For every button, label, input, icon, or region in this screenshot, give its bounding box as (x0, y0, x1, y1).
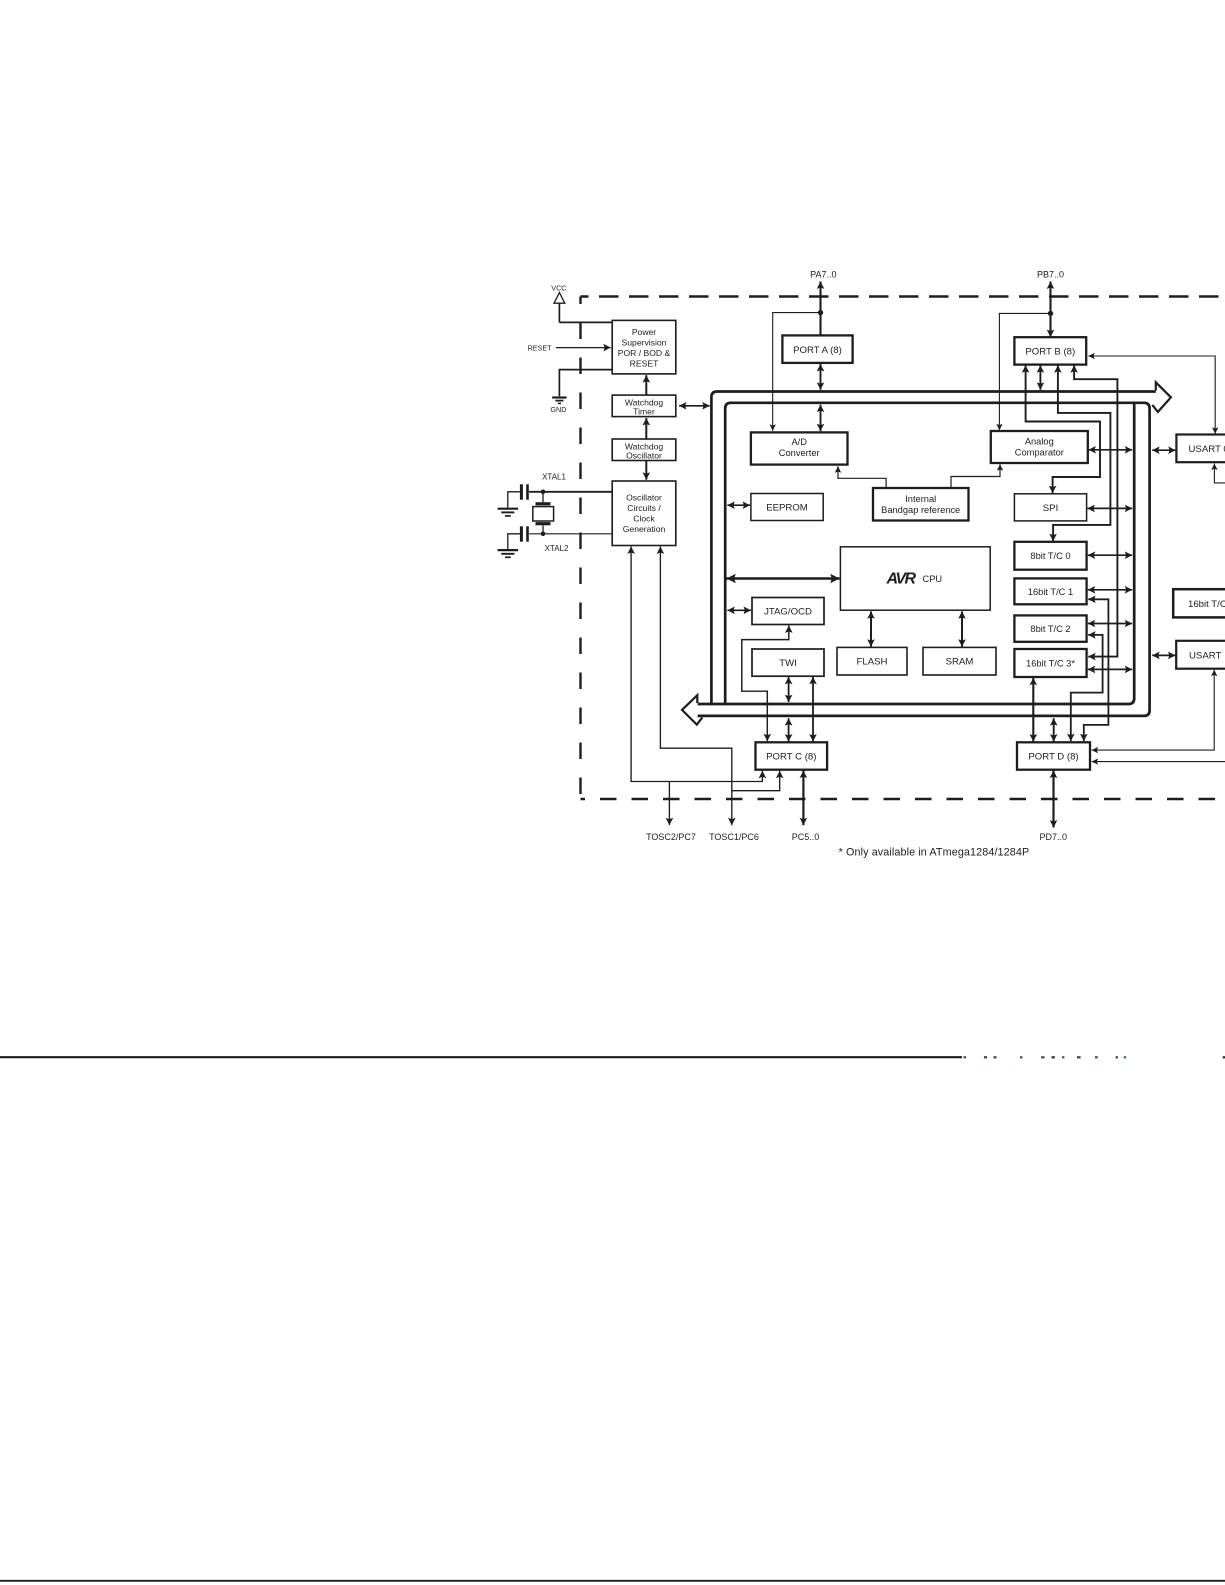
footer tiny text remnants (964, 1056, 1225, 1058)
wire bidir TWI to PORT C (long) (812, 677, 814, 742)
wire TOSC2/PC7 external arrow (668, 782, 670, 826)
wire bidir 8bit T/C 0 to bus corridor (1088, 554, 1132, 556)
block SRAM (923, 647, 996, 675)
wire 8bit T/C 2 to PORT D (stair) (1071, 635, 1103, 741)
wire bidir CPU to FLASH (870, 611, 872, 646)
VCC symbol (hollow up arrow) (554, 293, 565, 323)
svg-text:FLASH: FLASH (857, 657, 888, 668)
block Internal Bandgap reference (873, 488, 969, 521)
wire bidir PORT A to data bus (820, 364, 822, 390)
wire bidir 8bit T/C 2 to bus corridor (1088, 623, 1132, 625)
svg-text:8bit T/C 0: 8bit T/C 0 (1030, 551, 1070, 561)
block EEPROM (751, 494, 823, 521)
wire USART 1 to PORT D (stair) (1092, 670, 1215, 750)
bottom page rule (0, 1580, 1225, 1582)
node junction on PA line (818, 310, 823, 315)
wire PORT D right side (clipped) (1092, 761, 1225, 763)
ground symbol (GND) (552, 398, 566, 404)
wire bidir TWI to data bus (788, 677, 790, 702)
svg-text:AVR: AVR (886, 571, 917, 588)
svg-text:A/D: A/D (791, 437, 807, 447)
wire bidir 16bit T/C 3 to PORT D (1032, 678, 1034, 742)
ground symbol below C1 (498, 509, 518, 516)
svg-text:Converter: Converter (779, 448, 820, 458)
wire bidir Watchdog Timer to data bus (679, 405, 710, 407)
data bus: outer top line and outer left vertical (711, 392, 1155, 706)
crystal X1 (533, 492, 554, 534)
wire VCC to Power Supervision (559, 321, 612, 323)
wire PA7..0 external bidir arrow (819, 282, 821, 337)
svg-text:PB7..0: PB7..0 (1037, 270, 1064, 280)
svg-text:SPI: SPI (1043, 503, 1058, 514)
svg-text:PA7..0: PA7..0 (810, 270, 836, 280)
svg-text:TWI: TWI (779, 658, 797, 669)
wire bidir data bus to EEPROM (727, 504, 750, 506)
svg-text:PC5..0: PC5..0 (792, 832, 820, 842)
svg-text:Comparator: Comparator (1015, 448, 1064, 458)
wire PORT B to SPI (stair) (1026, 365, 1100, 493)
data bus: right big open arrow (1152, 382, 1171, 412)
footer horizontal rule (0, 1056, 962, 1058)
wire RESET arrow into Power Supervision (556, 347, 611, 349)
wire bidir SPI to bus corridor (1087, 507, 1132, 509)
block SPI (1014, 494, 1086, 521)
wire JTAG/OCD to PORT C (stair) (742, 626, 789, 742)
svg-text:CPU: CPU (923, 574, 943, 584)
wire PORT B right side to USART 0 (1088, 356, 1215, 434)
svg-text:* Only available in ATmega1284: * Only available in ATmega1284/1284P (839, 847, 1030, 859)
wire arrow Watchdog Oscillator to Watchdog Timer (645, 418, 647, 439)
svg-text:POR / BOD &: POR / BOD & (618, 348, 671, 358)
wire PORT B to 8bit T/C 0 (stair) (1053, 365, 1110, 541)
svg-text:RESET: RESET (630, 358, 659, 368)
block AVR CPU (840, 547, 990, 610)
wire bidir CPU to SRAM (961, 611, 963, 646)
svg-text:EEPROM: EEPROM (766, 503, 808, 514)
wire arrow Watchdog Timer to Power Supervision (645, 375, 647, 395)
svg-text:Circuits /: Circuits / (627, 503, 661, 513)
wire bidir USART 1 to bus corridor (1152, 654, 1175, 656)
wire Bandgap to Analog Comparator (951, 464, 1000, 488)
svg-text:Supervision: Supervision (622, 337, 667, 347)
data bus: upper bottom line and inner right vertical (698, 403, 1135, 704)
svg-text:PORT D (8): PORT D (8) (1028, 752, 1078, 763)
wire bidir 16bit T/C 1 to bus corridor (1088, 589, 1132, 591)
wire C1 to ground (508, 492, 520, 508)
wire PB7..0 external bidir arrow (1049, 282, 1051, 338)
node XTAL1 junction (541, 490, 546, 495)
block FLASH (837, 647, 907, 675)
wire bidir data bus to PORT C (788, 718, 790, 741)
wire bidir USART 0 to bus corridor (1152, 449, 1175, 451)
block PORT C (8) (756, 742, 828, 769)
capacitor C1 plates (521, 484, 527, 499)
block 16bit T/C right (clipped at page edge) (1173, 589, 1225, 617)
svg-text:Internal: Internal (905, 494, 936, 504)
wire TOSC1 branch to PORT C (732, 771, 780, 791)
wire PB junction to Analog Comparator (999, 313, 1050, 430)
wire bidir CPU to data bus (thick) (727, 577, 840, 580)
capacitor C2 plates (521, 526, 527, 541)
wire 16bit T/C 1 to PORT D (stair) (1084, 599, 1109, 741)
svg-text:16bit T/C 3*: 16bit T/C 3* (1026, 659, 1075, 669)
svg-text:SRAM: SRAM (946, 657, 974, 668)
svg-text:Generation: Generation (623, 524, 666, 534)
wire Power Supervision to GND (559, 370, 612, 397)
svg-text:PORT B (8): PORT B (8) (1025, 347, 1075, 358)
wire PA junction to A/D Converter (773, 313, 821, 431)
block 16bit T/C 3 (1014, 649, 1086, 677)
svg-text:PORT A (8): PORT A (8) (793, 345, 842, 356)
svg-text:Oscillator: Oscillator (626, 451, 662, 461)
dashed device boundary: top edge (581, 295, 1225, 297)
wire USART 0 bottom clock (clipped) (1214, 464, 1225, 483)
wire PORT B to 16bit T/C 3 (stair) (1074, 365, 1117, 656)
svg-text:8bit T/C 2: 8bit T/C 2 (1030, 624, 1070, 634)
svg-text:XTAL2: XTAL2 (545, 544, 569, 553)
svg-text:Analog: Analog (1025, 437, 1054, 447)
svg-text:16bit T/C: 16bit T/C (1188, 599, 1225, 610)
wire XTAL1 into Oscillator Circuits (529, 491, 612, 493)
svg-text:JTAG/OCD: JTAG/OCD (764, 607, 812, 618)
block USART 1 (clipped at page edge) (1176, 641, 1225, 669)
dashed device boundary: bottom edge (581, 798, 1225, 800)
ground symbol below C2 (498, 550, 518, 557)
svg-text:XTAL1: XTAL1 (542, 473, 566, 482)
svg-text:USART: USART (1189, 651, 1221, 662)
data bus: inner left vertical, inner top line, outer right vertical, lower bottom line (698, 403, 1150, 716)
svg-text:Bandgap reference: Bandgap reference (881, 505, 960, 515)
wire bidir data bus to PORT D (1053, 718, 1055, 741)
block 16bit T/C 1 (1014, 578, 1086, 604)
block PORT B (8) (1014, 337, 1086, 364)
data bus: left big open arrow (682, 695, 702, 724)
block Oscillator Circuits / Clock Generation (612, 481, 676, 546)
wire Oscillator Circuits to TOSC1 (660, 547, 731, 826)
svg-text:VCC: VCC (551, 284, 566, 293)
svg-text:Power: Power (632, 327, 656, 337)
wire arrow Watchdog Oscillator to Oscillator Circuits (645, 461, 647, 480)
svg-text:PORT C (8): PORT C (8) (766, 752, 816, 763)
node junction on PB line (1048, 311, 1053, 316)
wire C2 to ground (508, 534, 520, 549)
wire bidir data bus to A/D Converter (820, 405, 822, 432)
wire Bandgap to A/D Converter (838, 466, 886, 488)
block Analog Comparator (991, 431, 1088, 463)
svg-text:Timer: Timer (633, 407, 655, 417)
block Power Supervision POR/BOD RESET (612, 320, 676, 374)
wire Oscillator Circuits to PORT C / TOSC2 (631, 547, 762, 782)
block TWI (752, 649, 824, 676)
svg-text:TOSC2/PC7: TOSC2/PC7 (646, 832, 696, 842)
dashed device boundary: left edge (579, 297, 581, 801)
block A/D Converter (751, 432, 848, 464)
block USART 0 (clipped at page edge) (1176, 435, 1225, 463)
svg-text:Oscillator: Oscillator (626, 492, 662, 502)
svg-text:USART 0: USART 0 (1189, 444, 1225, 455)
svg-text:PD7..0: PD7..0 (1039, 832, 1067, 842)
block PORT D (8) (1017, 742, 1090, 769)
block 8bit T/C 0 (1014, 542, 1086, 570)
node XTAL2 junction (541, 532, 546, 537)
svg-text:TOSC1/PC6: TOSC1/PC6 (709, 832, 759, 842)
wire bidir 16bit T/C 3 to bus corridor (1088, 668, 1132, 670)
wire bidir Analog Comparator to bus corridor (1089, 449, 1133, 451)
wire PC5..0 external bidir arrow (802, 771, 804, 826)
wire bidir data bus to JTAG/OCD (727, 609, 751, 611)
block Watchdog Timer (612, 395, 676, 417)
svg-text:Clock: Clock (633, 513, 655, 523)
svg-text:RESET: RESET (528, 343, 553, 352)
wire XTAL2 into Oscillator Circuits (529, 533, 612, 535)
svg-text:GND: GND (550, 405, 566, 414)
wire PD7..0 external bidir arrow (1052, 771, 1054, 828)
block Watchdog Oscillator (612, 439, 676, 461)
block 8bit T/C 2 (1014, 615, 1086, 641)
block PORT A (8) (782, 335, 852, 363)
wire bidir PORT B to data bus (1039, 365, 1041, 390)
block JTAG/OCD (752, 598, 824, 625)
svg-text:16bit T/C 1: 16bit T/C 1 (1028, 587, 1073, 597)
